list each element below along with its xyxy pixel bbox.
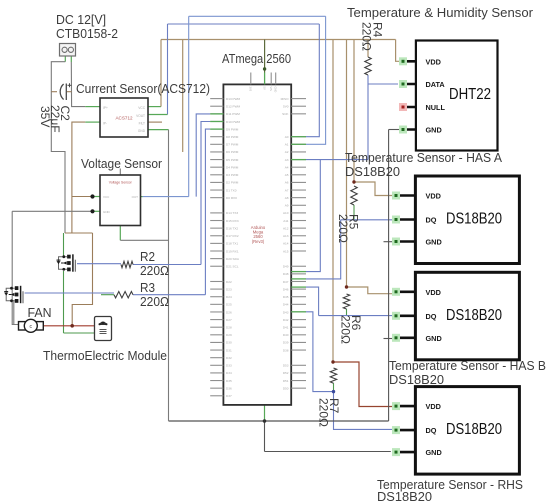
svg-text:Temperature Sensor - HAS B: Temperature Sensor - HAS B bbox=[389, 358, 546, 373]
wire ACS712 FILTER stub bbox=[148, 121, 162, 123]
wire VS top stub bbox=[119, 169, 121, 176]
wire VS OUT stub bbox=[141, 196, 143, 198]
svg-text:D30: D30 bbox=[226, 341, 232, 345]
junction ATmega 5V bbox=[263, 67, 266, 70]
junction GND bus bbox=[263, 419, 267, 423]
wire node jog at y233 bbox=[65, 232, 93, 234]
wire terminal block right pin stub bbox=[70, 56, 72, 62]
svg-text:A0: A0 bbox=[285, 135, 289, 139]
svg-text:D51: D51 bbox=[283, 379, 289, 383]
wire IP- pin stub bbox=[85, 121, 100, 123]
wire DQ RHS to ATmega pin bbox=[306, 312, 334, 392]
svg-text:SCK: SCK bbox=[282, 112, 289, 116]
junction R6 top bbox=[345, 285, 348, 288]
op-amp U1 ACS712 current sensor module bbox=[100, 98, 148, 137]
svg-text:A5: A5 bbox=[285, 173, 289, 177]
svg-text:DS18B20: DS18B20 bbox=[446, 421, 502, 438]
IC U2 ATmega 2560 Arduino Mega bbox=[223, 84, 291, 405]
wire R3 riser to ATmega left pin D8 bbox=[205, 129, 210, 295]
svg-text:D9 PWM: D9 PWM bbox=[226, 127, 239, 131]
svg-text:D15 RX3: D15 RX3 bbox=[226, 219, 239, 223]
svg-text:D45: D45 bbox=[283, 295, 289, 299]
svg-text:D36: D36 bbox=[226, 386, 232, 390]
resistor R7 220ohm bbox=[330, 368, 336, 383]
svg-text:VCC: VCC bbox=[103, 195, 110, 199]
svg-text:220Ω: 220Ω bbox=[140, 295, 169, 309]
wire vertical VS OUT riser bbox=[188, 16, 190, 196]
wire R5 bottom lead bbox=[353, 205, 355, 220]
svg-text:CTB0158-2: CTB0158-2 bbox=[56, 26, 118, 41]
svg-text:220Ω: 220Ω bbox=[339, 315, 353, 344]
resistor R2 220ohm bbox=[121, 261, 133, 267]
svg-text:DS18B20: DS18B20 bbox=[389, 372, 444, 387]
svg-text:GND: GND bbox=[426, 334, 442, 343]
wire DATA vertical bbox=[367, 84, 369, 160]
wire DQ RHS to DS18B20 bbox=[334, 392, 393, 430]
svg-text:A2: A2 bbox=[285, 150, 289, 154]
svg-text:D38: D38 bbox=[283, 348, 289, 352]
terminal block CTB0158-2 bbox=[60, 44, 76, 57]
junction R5 top bbox=[352, 180, 355, 183]
wire to VS IN+ bbox=[72, 196, 93, 198]
svg-text:A11: A11 bbox=[283, 219, 289, 223]
ATmega top pins bbox=[250, 73, 252, 85]
wire brown vertical to R5 junction bbox=[353, 40, 355, 183]
svg-text:220Ω: 220Ω bbox=[317, 398, 331, 427]
svg-text:GND: GND bbox=[426, 238, 442, 247]
svg-text:R2: R2 bbox=[140, 250, 155, 264]
svg-text:220Ω: 220Ω bbox=[360, 22, 374, 51]
svg-text:D34: D34 bbox=[226, 371, 232, 375]
wire DQ B to ATmega pin bbox=[306, 287, 319, 316]
wire VS OUT to riser bbox=[143, 196, 189, 198]
wire GND left bus vertical bbox=[168, 130, 170, 421]
svg-text:A13: A13 bbox=[283, 234, 289, 238]
svg-text:D35: D35 bbox=[226, 379, 232, 383]
wire C2 left lead bbox=[51, 91, 57, 93]
wire GND bottom bus bbox=[169, 420, 389, 422]
svg-text:A12: A12 bbox=[283, 226, 289, 230]
thermoelectric module TEM bbox=[95, 317, 112, 341]
svg-text:D32: D32 bbox=[226, 356, 232, 360]
wire ACS712 IP- down bbox=[72, 122, 85, 233]
svg-text:GND: GND bbox=[138, 129, 146, 133]
svg-text:D46: D46 bbox=[283, 287, 289, 291]
wire terminal block left pin stub bbox=[64, 56, 66, 62]
svg-text:D24: D24 bbox=[226, 295, 232, 299]
svg-text:D31: D31 bbox=[226, 348, 232, 352]
wire R7 bottom lead bbox=[333, 383, 335, 392]
wire 12V from terminal left pin down left side bbox=[51, 62, 65, 233]
svg-text:VCC: VCC bbox=[138, 106, 145, 110]
svg-text:D10 PWM: D10 PWM bbox=[226, 120, 241, 124]
wire VDD branch DS18B20 RHS bbox=[333, 362, 392, 407]
svg-text:5V0: 5V0 bbox=[283, 105, 289, 109]
svg-text:A4: A4 bbox=[285, 165, 289, 169]
svg-text:A7: A7 bbox=[285, 188, 289, 192]
wire R2 riser to ATmega left pin D9 bbox=[201, 122, 210, 265]
svg-text:D29: D29 bbox=[226, 333, 232, 337]
svg-text:GND: GND bbox=[103, 210, 111, 214]
svg-text:D11 PWM: D11 PWM bbox=[226, 112, 240, 116]
wire brown down to FAN node bbox=[72, 233, 92, 326]
svg-text:DQ: DQ bbox=[426, 312, 437, 321]
svg-text:FILT: FILT bbox=[139, 122, 145, 126]
svg-text:A6: A6 bbox=[285, 181, 289, 185]
svg-text:D12 PWM: D12 PWM bbox=[226, 105, 241, 109]
svg-text:D0 RX0: D0 RX0 bbox=[226, 196, 237, 200]
svg-text:D53: D53 bbox=[283, 364, 289, 368]
svg-text:D37: D37 bbox=[226, 394, 232, 398]
node VS IN+ arrow bbox=[90, 194, 94, 198]
wire vertical ACS712 VOUT riser bbox=[167, 24, 169, 115]
svg-text:IP-: IP- bbox=[103, 122, 107, 126]
motor FAN bbox=[19, 319, 44, 332]
wire drop to ATmega right pin A1 bbox=[306, 16, 326, 144]
svg-text:A15: A15 bbox=[283, 249, 289, 253]
sensor U3 DHT22 temperature and humidity bbox=[399, 41, 498, 151]
wire DQ B horizontal bbox=[319, 315, 392, 317]
svg-text:OUT: OUT bbox=[132, 195, 139, 199]
junction FAN plus node bbox=[70, 324, 74, 328]
resistor R6 220ohm bbox=[343, 294, 349, 309]
wire VS IN- stub bbox=[93, 210, 101, 212]
svg-text:ThermoElectric Module: ThermoElectric Module bbox=[43, 348, 167, 363]
svg-text:D2 PWM: D2 PWM bbox=[226, 181, 239, 185]
svg-text:A14: A14 bbox=[283, 242, 289, 246]
wire MOSFET1 drain up bbox=[63, 233, 65, 257]
sensor U5 DS18B20 HAS B bbox=[392, 272, 519, 360]
svg-text:D48: D48 bbox=[283, 272, 289, 276]
svg-text:D23: D23 bbox=[226, 287, 232, 291]
wire VS OUT branch to ATmega left pin D10 bbox=[196, 114, 210, 197]
wire DQ A to ATmega pin bbox=[306, 220, 341, 279]
wire MOSFET2 source down bbox=[13, 300, 15, 325]
svg-text:D47: D47 bbox=[283, 280, 289, 284]
svg-text:VOUT: VOUT bbox=[136, 114, 145, 118]
wire GND chain DHT22 to DS sensors bbox=[388, 130, 390, 422]
ATmega connected pin green stubs bbox=[210, 113, 223, 115]
svg-text:VDD: VDD bbox=[426, 57, 441, 66]
wire VDD branch DS18B20 B bbox=[347, 287, 393, 294]
svg-text:D4 PWM: D4 PWM bbox=[226, 165, 239, 169]
wire ATmega GND bottom stub bbox=[264, 405, 266, 421]
voltage sensor module bbox=[100, 175, 141, 226]
junction R7 top bbox=[331, 360, 334, 363]
wire GND elbow DHT22 bbox=[389, 129, 399, 131]
svg-text:A10: A10 bbox=[283, 211, 289, 215]
wire MOSFET2 gate to R3 bbox=[25, 292, 114, 294]
svg-text:D17 RX2: D17 RX2 bbox=[226, 234, 239, 238]
svg-text:DS18B20: DS18B20 bbox=[345, 164, 400, 179]
svg-text:D7 PWM: D7 PWM bbox=[226, 143, 239, 147]
wire VS IN- long horizontal bbox=[12, 210, 92, 212]
svg-text:DC 12[V]: DC 12[V] bbox=[56, 12, 106, 27]
svg-text:D41: D41 bbox=[283, 326, 289, 330]
svg-text:R3: R3 bbox=[140, 281, 155, 295]
svg-text:DS18B20: DS18B20 bbox=[377, 489, 432, 502]
wire brown rail to DHT22 VDD bbox=[396, 40, 404, 62]
svg-text:5V: 5V bbox=[262, 87, 266, 90]
svg-text:(Rev3): (Rev3) bbox=[252, 239, 265, 244]
svg-text:D13 PWM: D13 PWM bbox=[226, 97, 241, 101]
svg-text:DATA: DATA bbox=[426, 80, 446, 89]
wire VDD branch DS18B20 A bbox=[354, 182, 392, 196]
svg-text:D43: D43 bbox=[283, 310, 289, 314]
wire ATmega 5V riser to rail bbox=[264, 40, 266, 73]
wire blue top line from Voltage Sensor OUT bbox=[189, 15, 326, 17]
wire IP+ pin stub bbox=[85, 106, 100, 108]
svg-text:VDD: VDD bbox=[426, 288, 441, 297]
svg-text:Voltage Sensor: Voltage Sensor bbox=[81, 156, 163, 171]
wire R3 to riser bbox=[133, 294, 205, 296]
svg-text:GND: GND bbox=[274, 87, 278, 93]
wire DATA branch to second ATmega pin bbox=[306, 160, 320, 272]
svg-text:VDD: VDD bbox=[426, 192, 441, 201]
wire brown stub vertical near ATmega bbox=[182, 40, 184, 153]
wire left down to FAN minus bbox=[12, 211, 18, 324]
svg-text:D26: D26 bbox=[226, 310, 232, 314]
svg-text:A8: A8 bbox=[285, 196, 289, 200]
svg-text:220Ω: 220Ω bbox=[140, 264, 169, 278]
wire DATA to DHT22 bbox=[368, 83, 398, 85]
wire R4 bottom lead bbox=[367, 75, 369, 84]
wire GND stub DS B bbox=[384, 338, 393, 340]
wire VS GND to bus bbox=[120, 239, 168, 241]
wire GND stub DS A bbox=[384, 241, 393, 243]
ATmega pin stubs right bbox=[291, 98, 306, 100]
svg-text:D52: D52 bbox=[283, 371, 289, 375]
svg-text:D18 TX1: D18 TX1 bbox=[226, 242, 238, 246]
svg-text:A1: A1 bbox=[285, 143, 289, 147]
svg-text:NULL: NULL bbox=[426, 103, 446, 112]
svg-text:D1 TX0: D1 TX0 bbox=[226, 188, 237, 192]
svg-text:DS18B20: DS18B20 bbox=[446, 211, 502, 228]
svg-text:ATmega 2560: ATmega 2560 bbox=[222, 51, 291, 66]
wire GND to DS18B20 RHS bbox=[265, 451, 391, 453]
wire MOSFET1 gate to R2 bbox=[77, 263, 121, 265]
svg-text:Temperature & Humidity Sensor: Temperature & Humidity Sensor bbox=[347, 5, 534, 20]
resistor R5 220ohm bbox=[351, 186, 357, 205]
svg-text:VIN: VIN bbox=[269, 87, 273, 91]
svg-text:D49: D49 bbox=[283, 265, 289, 269]
wire VS GND stub down bbox=[119, 226, 121, 241]
svg-text:DS18B20: DS18B20 bbox=[446, 307, 502, 324]
wire MOSFET1 source down bbox=[63, 271, 65, 333]
svg-text:DQ: DQ bbox=[426, 216, 437, 225]
wire FAN plus to TEM pin A bbox=[43, 325, 96, 327]
svg-text:D25: D25 bbox=[226, 303, 232, 307]
svg-text:220Ω: 220Ω bbox=[336, 214, 350, 243]
sensor U4 DS18B20 HAS A bbox=[392, 176, 519, 264]
svg-text:Temperature Sensor - HAS A: Temperature Sensor - HAS A bbox=[345, 150, 502, 165]
wire R4 top lead bbox=[367, 40, 369, 58]
svg-text:D14 TX3: D14 TX3 bbox=[226, 211, 238, 215]
svg-text:D42: D42 bbox=[283, 318, 289, 322]
ATmega pin stubs left bbox=[210, 98, 223, 100]
wire R6 bottom lead bbox=[346, 309, 348, 316]
svg-text:D44: D44 bbox=[283, 303, 289, 307]
svg-text:D5 PWM: D5 PWM bbox=[226, 158, 239, 162]
svg-text:D50: D50 bbox=[283, 386, 289, 390]
svg-text:D28: D28 bbox=[226, 326, 232, 330]
svg-text:D3 PWM: D3 PWM bbox=[226, 173, 239, 177]
svg-text:D6 PWM: D6 PWM bbox=[226, 150, 239, 154]
wire blue top line from ACS712 VOUT bbox=[168, 23, 320, 25]
resistor R3 220ohm bbox=[114, 292, 133, 298]
wire to TEM pin B bbox=[64, 332, 97, 334]
svg-text:IP+: IP+ bbox=[103, 106, 108, 110]
wire DQ A horizontal bbox=[341, 219, 398, 221]
svg-text:D20 SDA: D20 SDA bbox=[226, 257, 240, 261]
wire GND drop to RHS sensor bbox=[264, 421, 266, 452]
svg-text:D22: D22 bbox=[226, 280, 232, 284]
svg-text:DQ: DQ bbox=[426, 426, 437, 435]
svg-text:D19 RX1: D19 RX1 bbox=[226, 249, 239, 253]
svg-text:3V3: 3V3 bbox=[249, 87, 253, 92]
svg-text:GND: GND bbox=[426, 126, 442, 135]
svg-text:Voltage Sensor: Voltage Sensor bbox=[109, 181, 133, 185]
wire drop to ATmega right pin A0 bbox=[306, 24, 319, 137]
sensor U6 DS18B20 RHS bbox=[392, 387, 519, 475]
transistor Q1 MOSFET TEM driver bbox=[57, 254, 76, 271]
svg-text:D27: D27 bbox=[226, 318, 232, 322]
svg-text:A9: A9 bbox=[285, 204, 289, 208]
junction R7 bottom / DQ RHS bbox=[332, 390, 335, 393]
wire VS IN+ stub bbox=[93, 196, 101, 198]
svg-text:35V: 35V bbox=[38, 106, 52, 127]
svg-text:MISO: MISO bbox=[281, 97, 290, 101]
wire ACS712 GND stub bbox=[148, 129, 169, 131]
wire ACS712 VOUT stub bbox=[148, 114, 168, 116]
transistor Q2 MOSFET FAN driver bbox=[4, 286, 23, 303]
svg-text:GND: GND bbox=[426, 448, 442, 457]
svg-text:Current Sensor(ACS712): Current Sensor(ACS712) bbox=[76, 81, 210, 96]
node VS IN- arrow bbox=[90, 209, 94, 213]
svg-text:D16 TX2: D16 TX2 bbox=[226, 226, 238, 230]
svg-text:ACS712: ACS712 bbox=[115, 116, 133, 121]
wire brown vertical to R6 junction bbox=[346, 40, 348, 288]
wire ACS712 VCC stub bbox=[148, 106, 161, 108]
wire C2 right lead bbox=[67, 91, 72, 93]
svg-text:D8 PWM: D8 PWM bbox=[226, 135, 239, 139]
capacitor C2 22uF 35V bbox=[60, 83, 71, 100]
wire green segment before R3 bbox=[101, 294, 114, 296]
svg-text:VDD: VDD bbox=[426, 402, 441, 411]
wire VDD brown rail top bbox=[161, 39, 396, 41]
svg-text:A3: A3 bbox=[285, 158, 289, 162]
wire DATA to ATmega right pin bbox=[306, 159, 368, 161]
svg-text:FAN: FAN bbox=[28, 305, 52, 320]
svg-text:D40: D40 bbox=[283, 333, 289, 337]
wire ACS712 VCC riser to rail bbox=[160, 40, 162, 107]
svg-text:DHT22: DHT22 bbox=[449, 86, 491, 103]
svg-text:D39: D39 bbox=[283, 341, 289, 345]
svg-text:D21 SCL: D21 SCL bbox=[226, 265, 239, 269]
wire terminal right pin to ACS712 IP+ bbox=[71, 62, 85, 107]
wire R2 to riser bbox=[133, 264, 201, 266]
resistor R4 220ohm bbox=[365, 57, 371, 75]
svg-text:D33: D33 bbox=[226, 364, 232, 368]
wire brown vertical to R7 junction bbox=[332, 40, 334, 363]
